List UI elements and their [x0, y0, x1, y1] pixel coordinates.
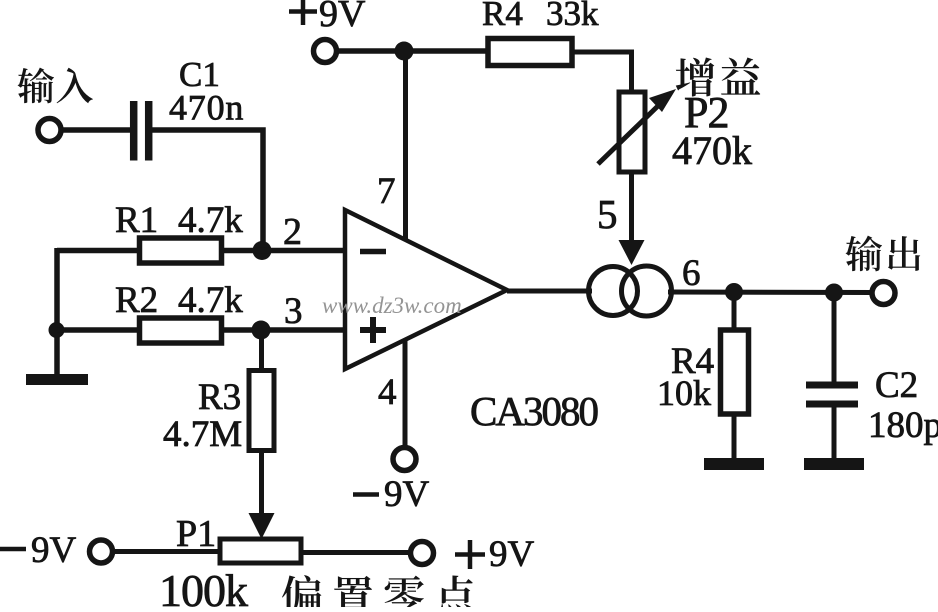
- svg-text:33k: 33k: [546, 0, 599, 33]
- wire R1 left: [57, 248, 140, 254]
- svg-text:R2: R2: [115, 280, 158, 321]
- svg-text:www.dz3w.com: www.dz3w.com: [322, 293, 462, 318]
- current mirror double circle: [589, 267, 638, 316]
- -9V terminal pin4: [393, 448, 416, 471]
- svg-text:6: 6: [682, 253, 701, 294]
- svg-text:9V: 9V: [384, 474, 430, 515]
- resistor R2: [140, 318, 222, 343]
- +9V terminal bottom right: [411, 542, 434, 565]
- output rail: [668, 290, 872, 296]
- wire R4 10k to ground: [732, 414, 737, 458]
- wire pin 7: [403, 51, 408, 240]
- svg-text:P1: P1: [176, 513, 216, 555]
- plus sign of +9V top: [289, 9, 317, 14]
- junction R4 10k: [725, 283, 743, 301]
- svg-text:470n: 470n: [169, 88, 244, 128]
- node 3 junction: [252, 321, 271, 340]
- output terminal: [872, 282, 895, 305]
- ground R4 10k: [704, 458, 764, 470]
- wire output to C2: [832, 293, 837, 383]
- svg-text:9V: 9V: [31, 530, 77, 571]
- junction pin7 node: [395, 42, 414, 61]
- potentiometer P2: [619, 92, 645, 172]
- +9V terminal top: [314, 40, 337, 63]
- node 2 junction: [253, 241, 272, 260]
- wire R1 to op-amp: [221, 248, 345, 254]
- svg-text:4.7M: 4.7M: [163, 414, 242, 455]
- minus sign of -9V pin4: [353, 492, 379, 497]
- svg-text:3: 3: [284, 291, 303, 332]
- svg-text:5: 5: [597, 191, 618, 237]
- svg-text:100k: 100k: [159, 565, 248, 607]
- capacitor C2: [806, 382, 858, 389]
- resistor R1: [140, 238, 222, 263]
- arrow R3 to P1 wiper: [259, 452, 264, 522]
- wire input to C1: [61, 127, 131, 133]
- svg-text:180p: 180p: [868, 405, 938, 446]
- wire R2 left: [57, 327, 140, 333]
- svg-text:R4: R4: [482, 0, 523, 33]
- minus input mark: [360, 249, 386, 255]
- svg-text:9V: 9V: [489, 534, 535, 575]
- label shu-chu output: [846, 236, 882, 272]
- ground left: [26, 374, 88, 385]
- svg-text:4.7k: 4.7k: [178, 200, 243, 241]
- input terminal: [38, 119, 61, 142]
- wire output to R4 10k: [732, 292, 737, 330]
- label zeng-yi gain: [676, 58, 715, 97]
- wire P1 left: [113, 549, 220, 554]
- svg-text:7: 7: [377, 171, 396, 212]
- svg-text:470k: 470k: [672, 128, 752, 173]
- resistor R4 33k: [488, 39, 572, 66]
- svg-text:10k: 10k: [657, 373, 711, 413]
- wire R2 to op-amp: [222, 327, 346, 333]
- minus sign of -9V bottom left: [0, 547, 26, 552]
- wire C1 to node 2: [152, 130, 263, 250]
- wire op-amp out: [507, 289, 592, 294]
- plus input mark: [360, 327, 386, 333]
- wire node3 to R3: [259, 330, 264, 370]
- ground C2: [804, 458, 864, 470]
- wire C2 to ground: [832, 407, 837, 458]
- op-amp U1 triangle: [345, 210, 507, 369]
- svg-text:4: 4: [378, 372, 397, 413]
- svg-text:CA3080: CA3080: [470, 388, 597, 434]
- plus sign of +9V bottom right: [455, 552, 485, 557]
- -9V terminal bottom left: [90, 540, 113, 563]
- left rail wire: [54, 248, 60, 375]
- resistor R3: [249, 371, 274, 451]
- wire +9V rail: [337, 48, 489, 54]
- svg-text:R1: R1: [115, 200, 158, 241]
- svg-text:4.7k: 4.7k: [178, 280, 243, 321]
- junction C2: [825, 284, 843, 302]
- label shu-ru input: [18, 68, 54, 104]
- svg-text:9V: 9V: [319, 0, 366, 35]
- capacitor C1: [130, 101, 138, 161]
- resistor R4 10k: [721, 330, 749, 414]
- svg-text:R3: R3: [198, 377, 241, 418]
- junction left rail: [49, 322, 65, 338]
- wire R4 to P2: [572, 52, 632, 92]
- wire P2 to OTA pin 5 arrow: [629, 172, 634, 248]
- wire P1 right: [301, 550, 410, 555]
- label pian-zhi-ling-dian bias zero: [282, 575, 321, 612]
- wire pin 4: [403, 341, 408, 446]
- potentiometer P1: [220, 539, 301, 563]
- svg-text:C2: C2: [875, 365, 918, 406]
- svg-text:2: 2: [283, 211, 302, 253]
